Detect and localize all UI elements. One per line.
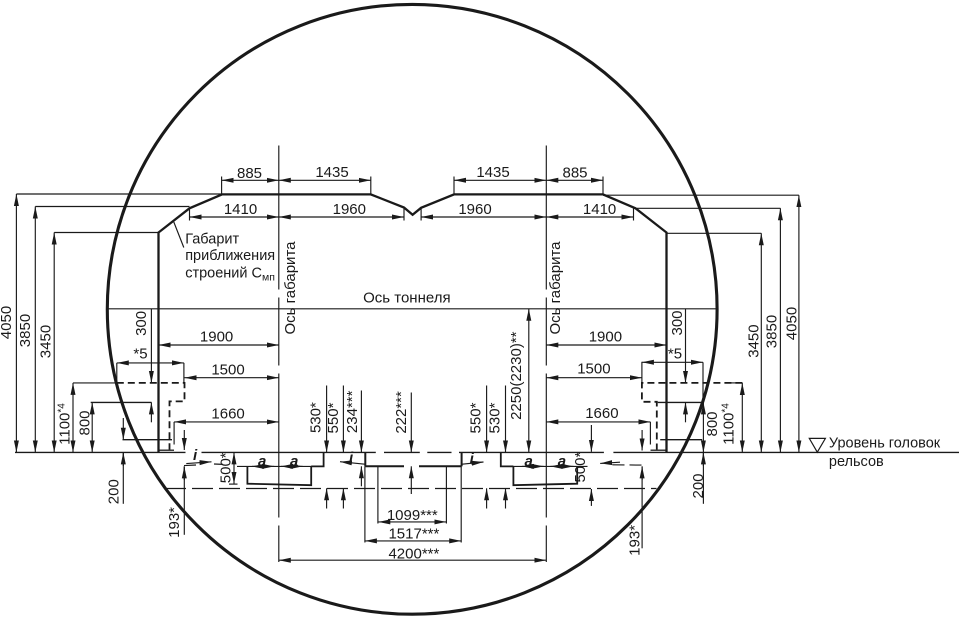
extension tick 1100 right top bbox=[730, 382, 742, 384]
dim 1660 right bbox=[546, 421, 650, 423]
svg-text:Ось тоннеля: Ось тоннеля bbox=[363, 290, 450, 307]
svg-text:1660: 1660 bbox=[211, 405, 244, 422]
extension ticks top dims left bbox=[221, 177, 223, 195]
dim 1660 left bbox=[174, 421, 279, 423]
rotated texts bbox=[0, 241, 800, 556]
center track box bbox=[364, 452, 366, 466]
texts horizontal bbox=[133, 164, 940, 563]
dim 193 right line bbox=[641, 430, 643, 451]
svg-text:550*: 550* bbox=[325, 402, 342, 433]
dim 2250(2230) vertical bbox=[528, 309, 530, 453]
svg-text:1435: 1435 bbox=[315, 164, 348, 181]
svg-text:3450: 3450 bbox=[37, 325, 54, 358]
extension line top for 3850 left bbox=[35, 206, 189, 208]
svg-text:300: 300 bbox=[669, 310, 686, 335]
dim 193 left line bbox=[183, 430, 185, 450]
dim 1099 bbox=[378, 521, 446, 523]
dim 1517 bbox=[365, 540, 461, 542]
dim 200 left lower stem bbox=[122, 452, 124, 503]
svg-text:193*: 193* bbox=[626, 525, 643, 556]
dashed gauge outline left bbox=[117, 383, 185, 450]
slope symbol i left inner bbox=[340, 462, 365, 465]
svg-text:1100*4: 1100*4 bbox=[56, 403, 73, 445]
svg-text:1900: 1900 bbox=[589, 329, 622, 346]
svg-text:1100*4: 1100*4 bbox=[720, 403, 737, 445]
svg-text:a: a bbox=[525, 453, 533, 470]
svg-text:*5: *5 bbox=[133, 346, 147, 363]
svg-text:a: a bbox=[258, 453, 266, 470]
svg-text:885: 885 bbox=[562, 165, 587, 182]
svg-text:Габарит: Габарит bbox=[185, 232, 239, 248]
svg-text:i: i bbox=[193, 447, 198, 464]
dim 300 right upper stem bbox=[685, 309, 687, 383]
dim 500* right bbox=[590, 425, 592, 452]
slope symbol i left outer bbox=[186, 462, 211, 464]
svg-text:a: a bbox=[558, 453, 566, 470]
svg-text:1500: 1500 bbox=[211, 362, 244, 379]
extensions 1099 bbox=[377, 466, 379, 523]
svg-text:Ось габарита: Ось габарита bbox=[547, 241, 564, 335]
dim 1410 left bbox=[190, 216, 279, 218]
svg-text:530*: 530* bbox=[307, 402, 324, 433]
extension *5 left leg (right track) bbox=[641, 362, 643, 383]
dim 3850 right vertical bbox=[779, 208, 781, 452]
svg-text:3850: 3850 bbox=[17, 314, 34, 347]
dim 200 right lower stem bbox=[702, 452, 704, 503]
dim 1435 left bbox=[279, 179, 371, 181]
small dim stems 530* right bbox=[505, 386, 507, 453]
extension line top for 4050 right bbox=[603, 194, 799, 196]
dashed gauge outline right bbox=[642, 383, 743, 450]
svg-text:222***: 222*** bbox=[393, 391, 410, 434]
svg-text:530*: 530* bbox=[487, 402, 504, 433]
solid step 200-level left bbox=[123, 439, 173, 441]
dim 300 left lower stem bbox=[150, 402, 152, 422]
svg-text:1900: 1900 bbox=[200, 329, 233, 346]
dim *5 right bbox=[642, 361, 703, 363]
small dim stems 234*** bbox=[360, 391, 362, 453]
svg-text:200: 200 bbox=[105, 479, 122, 504]
dim 800 right vertical bbox=[702, 402, 704, 452]
dim 1960 left bbox=[279, 216, 404, 218]
dim 4050 left vertical bbox=[15, 194, 17, 452]
dim 1100*4 left vertical bbox=[72, 383, 74, 453]
extension ticks top dims right bbox=[453, 177, 455, 195]
extensions 1517 bbox=[364, 466, 366, 542]
dim *5 left bbox=[117, 362, 184, 364]
leader line gauge label bbox=[174, 222, 184, 248]
svg-text:1435: 1435 bbox=[476, 164, 509, 181]
dim 885 left bbox=[222, 179, 279, 181]
gauge axis right (Ось габарита) bbox=[545, 146, 547, 563]
svg-text:приближения: приближения bbox=[185, 248, 275, 264]
dim 200 left upper stem bbox=[122, 418, 124, 440]
svg-text:234***: 234*** bbox=[344, 390, 361, 433]
svg-text:1660: 1660 bbox=[585, 405, 618, 422]
svg-text:*5: *5 bbox=[668, 346, 682, 363]
rail line gaps bbox=[186, 451, 614, 454]
slope symbol i right outer bbox=[600, 462, 620, 463]
solid step 200-level right bbox=[660, 439, 702, 441]
a-dimension line right track bbox=[501, 465, 588, 467]
dim 3450 right vertical bbox=[760, 233, 762, 452]
svg-text:3450: 3450 bbox=[745, 324, 762, 357]
dim 1410 right bbox=[546, 216, 633, 218]
svg-text:1410: 1410 bbox=[224, 201, 257, 218]
gauge bottom closing segment right bbox=[651, 449, 667, 451]
extension line top for 3450 right bbox=[667, 232, 762, 234]
extension 1660 left bbox=[173, 422, 175, 445]
dim 500* left bbox=[233, 452, 235, 483]
svg-text:4200***: 4200*** bbox=[388, 546, 439, 563]
svg-text:1410: 1410 bbox=[583, 201, 616, 218]
dim 800 left vertical bbox=[91, 402, 93, 452]
small dim stems 550* left bbox=[342, 386, 344, 453]
rail head level line bbox=[15, 451, 959, 453]
svg-text:800: 800 bbox=[704, 411, 721, 436]
tunnel circle bbox=[107, 4, 717, 614]
svg-text:1500: 1500 bbox=[577, 361, 610, 378]
dim 1960 right bbox=[421, 216, 546, 218]
dim 1435 right bbox=[454, 179, 546, 181]
dim 1100*4 right vertical bbox=[741, 383, 743, 452]
small dim stems 530* left bbox=[326, 386, 328, 453]
solid step 800-level left bbox=[91, 401, 152, 403]
svg-text:4050: 4050 bbox=[783, 307, 800, 340]
rail level triangle symbol bbox=[809, 438, 825, 452]
svg-text:рельсов: рельсов bbox=[829, 454, 884, 470]
svg-text:4050: 4050 bbox=[0, 306, 15, 339]
extension y=382.9 left of dashed outline bbox=[73, 382, 117, 384]
svg-text:1960: 1960 bbox=[458, 201, 491, 218]
tunnel axis line (Ось тоннеля) bbox=[107, 308, 718, 310]
svg-text:193*: 193* bbox=[166, 507, 183, 538]
small dim stems 222*** bbox=[410, 393, 412, 453]
svg-text:Ось габарита: Ось габарита bbox=[282, 241, 299, 335]
svg-text:300: 300 bbox=[133, 311, 150, 336]
svg-text:200: 200 bbox=[690, 473, 707, 498]
extension *5 left leg bbox=[116, 363, 118, 383]
extension 1660 right bbox=[649, 422, 651, 445]
svg-text:2250(2230)**: 2250(2230)** bbox=[508, 331, 525, 420]
a-dimension line left track bbox=[237, 465, 324, 467]
extension line top for 3450 left bbox=[54, 232, 158, 234]
right track lower box bbox=[501, 452, 577, 485]
dim 885 right bbox=[546, 179, 603, 181]
dim 3850 left vertical bbox=[34, 207, 36, 453]
lower dash line below rails bbox=[165, 488, 657, 490]
extension line top for 3850 right bbox=[637, 207, 780, 209]
svg-text:800: 800 bbox=[76, 410, 93, 435]
dim 300 right lower stem bbox=[685, 402, 687, 422]
dim 3450 left vertical bbox=[53, 233, 55, 453]
svg-text:500*: 500* bbox=[572, 452, 589, 483]
svg-text:550*: 550* bbox=[467, 402, 484, 433]
slope symbol i right inner bbox=[461, 462, 484, 464]
gauge bottom closing segment left bbox=[159, 449, 175, 451]
svg-text:1960: 1960 bbox=[333, 201, 366, 218]
dim 1500 left bbox=[185, 377, 279, 379]
dim 4200 bbox=[279, 559, 547, 561]
small dim stems 550* right bbox=[486, 386, 488, 453]
svg-text:3850: 3850 bbox=[763, 315, 780, 348]
svg-text:500*: 500* bbox=[218, 452, 235, 483]
svg-text:a: a bbox=[290, 453, 298, 470]
svg-text:строений Смп: строений Смп bbox=[185, 266, 275, 284]
extension line top for 4050 left bbox=[16, 193, 221, 195]
svg-text:Уровень головок: Уровень головок bbox=[829, 435, 941, 451]
gauge axis left (Ось габарита) bbox=[278, 146, 280, 563]
svg-text:885: 885 bbox=[237, 165, 262, 182]
italic letters bbox=[193, 447, 566, 470]
extension *5 right leg (left track) bbox=[183, 363, 185, 383]
svg-text:1517***: 1517*** bbox=[388, 525, 439, 542]
solid step 800-level right bbox=[658, 401, 704, 403]
dim 300 left upper stem bbox=[150, 309, 152, 383]
svg-text:1099***: 1099*** bbox=[387, 507, 438, 524]
dim 1900 right bbox=[546, 344, 666, 346]
dim 1900 left bbox=[159, 344, 279, 346]
extension *5 right leg (right track) bbox=[702, 362, 704, 402]
dim 1500 right bbox=[546, 377, 642, 379]
left track lower box bbox=[247, 452, 323, 485]
gauge outline (габарит приближения строений), solid thick bbox=[159, 194, 667, 452]
dim 4050 right vertical bbox=[798, 195, 800, 452]
